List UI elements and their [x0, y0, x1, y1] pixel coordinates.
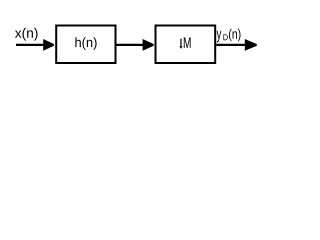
- wire: input arrow into filter block: [16, 39, 54, 51]
- filter block h(n): [56, 26, 115, 64]
- label: down-arrow of downsampler: [179, 39, 182, 49]
- downsampler block (decimator by M): [156, 26, 216, 64]
- node yD(n): output label y: [217, 31, 222, 42]
- wire: arrow from h(n) block to downsampler block: [117, 39, 154, 51]
- label: M of downsampler: [184, 37, 191, 48]
- node yD(n): subscript D: [223, 34, 227, 40]
- wire: output arrow: [216, 39, 257, 51]
- label h(n): [75, 37, 96, 50]
- node x(n): input signal label: [15, 28, 38, 41]
- node yD(n): (n): [229, 29, 241, 42]
